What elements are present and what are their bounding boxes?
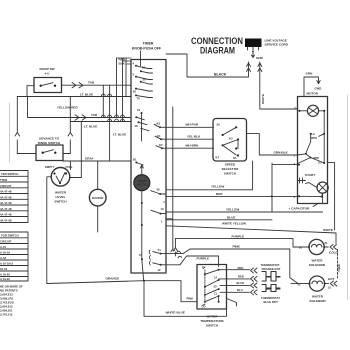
wire hot left: [291, 283, 309, 285]
svg-text:WHITE-BLUE: WHITE-BLUE: [166, 311, 185, 315]
water level switch P1: [51, 168, 70, 187]
wire door sw right / TAB: [62, 84, 132, 86]
svg-text:GRN: GRN: [306, 72, 314, 76]
timer box: [131, 60, 166, 274]
svg-text:4A 47-48: 4A 47-48: [0, 218, 12, 222]
label RED BLK: [119, 58, 126, 66]
wire white-blue: [144, 281, 227, 317]
svg-text:SOLENOID: SOLENOID: [309, 299, 326, 303]
label WATER LEVEL SWITCH: [54, 191, 67, 204]
wire lt blue long: [17, 96, 131, 98]
labels EMPTY FULL: [45, 165, 73, 169]
svg-text:5A: 5A: [217, 123, 221, 127]
wire gray to timer: [71, 160, 132, 162]
wire mid vertical c: [116, 58, 118, 118]
table selector switch chart 2: [0, 232, 28, 281]
svg-text:WHITE YELLOW: WHITE YELLOW: [222, 221, 246, 225]
timer terminal labels upper: [133, 62, 147, 101]
svg-text:A 19-20: A 19-20: [0, 277, 10, 281]
capacitor pointer: [313, 203, 319, 207]
water temperature switch box: [197, 265, 227, 310]
svg-text:LO: LO: [202, 305, 207, 309]
svg-text:2: 2: [133, 73, 135, 77]
table water switch chart 1: [0, 171, 28, 223]
svg-text:YELLOW: YELLOW: [226, 208, 239, 212]
svg-text:EMPTY: EMPTY: [45, 165, 55, 169]
wire door sw left: [27, 86, 34, 97]
parallel wire right of timer: [172, 107, 174, 250]
svg-text:4A 47-48: 4A 47-48: [0, 201, 12, 205]
motor inner right wire: [323, 111, 325, 163]
svg-text:J: J: [163, 200, 165, 204]
thermostat blue symbol: [262, 285, 280, 292]
wire yellow 1: [166, 161, 253, 190]
svg-text:BLUE: BLUE: [237, 281, 245, 285]
capacitor symbol: [298, 178, 306, 183]
cold right connector: [324, 245, 336, 250]
svg-text:KNOB-PUSH OFF: KNOB-PUSH OFF: [132, 47, 162, 51]
svg-text:SELECTOR: SELECTOR: [222, 167, 240, 171]
wire left edge down to arrow: [16, 97, 18, 134]
svg-text:GND: GND: [256, 56, 264, 60]
arrow up left: [15, 133, 20, 154]
wire mid vertical d: [122, 58, 124, 122]
page edge line: [347, 95, 349, 300]
svg-text:4A 47-48: 4A 47-48: [0, 207, 12, 211]
svg-text:4A 47-48: 4A 47-48: [0, 190, 12, 194]
svg-text:CIRCUIT: CIRCUIT: [0, 184, 12, 188]
arrow up right: [68, 133, 73, 154]
svg-text:BLU: BLU: [237, 288, 243, 292]
svg-text:LT. BLUE: LT. BLUE: [84, 125, 97, 129]
motor 4 terminal: [298, 193, 322, 197]
timer terminal labels mid: [135, 108, 141, 128]
label DOOR SW: [39, 67, 54, 76]
svg-text:16: 16: [142, 66, 146, 70]
wire start to capacitor run: [322, 193, 324, 203]
svg-text:10: 10: [139, 253, 143, 257]
wire purple 2: [187, 256, 219, 267]
wire motor 3 feed: [272, 163, 300, 212]
svg-text:6A: 6A: [233, 156, 237, 160]
svg-text:21: 21: [328, 286, 332, 290]
timer contacts upper: [135, 65, 153, 98]
label LINE VOLTAGE SERVICE CORD: [265, 39, 289, 47]
svg-text:HOT: HOT: [328, 277, 335, 281]
title CONNECTION DIAGRAM: [191, 36, 243, 57]
svg-text:BUZZER: BUZZER: [92, 196, 103, 200]
thermostat orange symbol: [262, 272, 280, 282]
svg-text:SOLENOID: SOLENOID: [309, 263, 326, 267]
wire mid vertical a: [102, 85, 104, 117]
svg-text:MOTOR: MOTOR: [307, 92, 319, 96]
timer contacts T1/10/12: [141, 250, 162, 266]
svg-text:CIRCUIT: CIRCUIT: [0, 239, 12, 243]
svg-text:0.5: 0.5: [318, 161, 322, 165]
svg-text:3,742,512: 3,742,512: [0, 313, 13, 317]
svg-text:30: 30: [157, 188, 161, 192]
label THERMOSTAT BLUE DOT: [261, 296, 280, 304]
svg-text:+ CAPACITOR: + CAPACITOR: [289, 207, 311, 211]
wire into timer top: [140, 51, 142, 66]
svg-text:WH-BRN: WH-BRN: [186, 143, 200, 147]
motor box: [298, 97, 328, 204]
svg-text:4: 4: [294, 195, 296, 199]
svg-text:SWITCH: SWITCH: [206, 324, 219, 328]
wire cold left: [293, 244, 309, 248]
label ADVANCE TO RINSE SWITCH: [38, 137, 61, 145]
svg-text:TIMER: TIMER: [143, 42, 154, 46]
svg-text:K3: K3: [229, 137, 233, 141]
svg-text:20: 20: [214, 285, 218, 289]
svg-text:TAB: TAB: [88, 81, 95, 85]
svg-text:T1: T1: [158, 248, 162, 252]
svg-text:START: START: [305, 173, 315, 177]
wire yellow-red: [28, 97, 132, 118]
svg-text:TAB: TAB: [91, 113, 98, 117]
svg-text:K7: K7: [216, 156, 220, 160]
svg-text:4A 47-48: 4A 47-48: [0, 213, 12, 217]
wire WLS left down: [47, 177, 51, 284]
svg-text:A 16-20: A 16-20: [0, 272, 10, 276]
label THERMOSTAT ORANGE DOT: [261, 263, 281, 271]
svg-text:# U: # U: [45, 72, 51, 76]
connector chevrons N: [258, 63, 262, 72]
wire WLS right up loop: [70, 122, 82, 178]
label WATER SOLENOID cold: [309, 259, 326, 268]
svg-text:LT. BLUE: LT. BLUE: [80, 92, 93, 96]
wire white N: [260, 62, 298, 109]
motor start winding: [306, 182, 329, 193]
svg-text:1: 1: [161, 220, 163, 224]
svg-text:GND: GND: [315, 87, 323, 91]
wire second cross line: [70, 97, 131, 134]
wire blue 1: [220, 283, 257, 288]
svg-text:WATER: WATER: [55, 191, 67, 195]
svg-text:BLACK: BLACK: [214, 73, 227, 77]
connector chevrons TAB1: [72, 83, 83, 88]
svg-text:DOOR SW: DOOR SW: [39, 67, 54, 71]
wire speed switch to motor 5: [247, 134, 260, 155]
svg-text:LT. BLUE: LT. BLUE: [113, 133, 126, 137]
svg-text:MOTOR: MOTOR: [137, 183, 147, 187]
svg-text:4PM: 4PM: [313, 156, 319, 160]
wire yel-blk to speed switch: [166, 138, 214, 140]
svg-text:26: 26: [133, 90, 137, 94]
label TIMER KNOB-PUSH OFF: [132, 42, 162, 51]
svg-text:RED: RED: [216, 192, 223, 196]
labels T1 10 12: [139, 248, 161, 272]
svg-text:K2: K2: [159, 143, 163, 147]
svg-text:BLUE: BLUE: [227, 215, 235, 219]
label 3 wire - motor right stub: [328, 163, 335, 230]
svg-text:TER SWITCH: TER SWITCH: [1, 172, 18, 176]
svg-text:5: 5: [294, 154, 296, 158]
wire purple 1: [175, 239, 293, 244]
svg-text:GRN-BLK: GRN-BLK: [274, 151, 289, 155]
service cord block: [245, 39, 262, 51]
svg-text:16-19: 16-19: [0, 267, 8, 271]
wire mid vertical b: [109, 85, 111, 161]
label SPEED SELECTOR SWITCH: [222, 163, 240, 176]
motor main winding: [298, 105, 325, 116]
wire timer top feeders: [117, 58, 132, 64]
svg-text:WHITE: WHITE: [261, 94, 265, 104]
svg-text:WATER: WATER: [312, 295, 324, 299]
crossover hops bottom: [171, 250, 182, 258]
GRD pin arrow: [252, 51, 255, 58]
wire purple drop arrow: [173, 239, 177, 256]
cold water solenoid: [308, 239, 325, 254]
labels K3 K1 K2: [157, 122, 164, 148]
svg-text:PURPLE: PURPLE: [232, 234, 245, 238]
svg-text:22: 22: [298, 283, 302, 287]
svg-text:3: 3: [294, 162, 296, 166]
wire wh-brn to speed switch: [166, 147, 214, 149]
wire WLS top gray: [63, 161, 71, 170]
label WATER TEMPERATURE SWITCH: [200, 315, 223, 328]
svg-text:A 16-19+2: A 16-19+2: [0, 261, 13, 265]
svg-text:SPEED: SPEED: [225, 163, 236, 167]
svg-text:BLUE DOT: BLUE DOT: [264, 300, 279, 304]
svg-text:TTER: TTER: [0, 178, 7, 182]
wire yellow 2 capacitor run: [166, 211, 323, 213]
svg-text:WATER: WATER: [312, 259, 324, 263]
svg-text:TEMPERATURE: TEMPERATURE: [200, 319, 223, 323]
svg-text:K1: K1: [157, 134, 161, 138]
wire red 1: [219, 268, 257, 273]
svg-text:WHITE: WHITE: [323, 228, 333, 232]
timer motor M1: [134, 175, 150, 191]
svg-text:YELLOW: YELLOW: [211, 185, 224, 189]
svg-text:PINK: PINK: [187, 297, 194, 301]
advance to rinse switch box: [36, 145, 63, 161]
wire wh-pur to speed switch: [166, 126, 214, 128]
speed selector switch box: [213, 119, 247, 162]
svg-text:11: 11: [214, 292, 217, 296]
svg-text:SERVICE CORD: SERVICE CORD: [265, 43, 289, 47]
svg-text:4: 4: [133, 62, 135, 66]
wire blue 2: [220, 290, 257, 295]
timer B1 contact: [135, 162, 143, 175]
svg-text:RED: RED: [238, 266, 244, 270]
wire green ground: [304, 77, 320, 97]
svg-text:SWITCH: SWITCH: [224, 172, 237, 176]
svg-text:TOR SWITCH: TOR SWITCH: [1, 234, 19, 238]
svg-text:LEVEL: LEVEL: [56, 195, 66, 199]
label WATER SOLENOID hot: [309, 295, 326, 304]
wire black L1: [166, 54, 249, 77]
svg-text:A 16-19: A 16-19: [0, 250, 10, 254]
svg-text:SWITCH: SWITCH: [54, 200, 67, 204]
svg-text:ORANGE: ORANGE: [106, 277, 120, 281]
buzzer wire top: [97, 161, 99, 189]
svg-text:A-10: A-10: [0, 245, 7, 249]
svg-text:Y-BLK: Y-BLK: [337, 264, 341, 272]
svg-text:10: 10: [161, 207, 165, 211]
svg-text:FULL: FULL: [66, 165, 73, 169]
timer contacts K3 K1 K2: [154, 124, 166, 149]
speed switch labels: [216, 123, 237, 161]
svg-text:K3: K3: [157, 122, 161, 126]
svg-text:PURPLE: PURPLE: [197, 257, 210, 261]
wire rinse right: [63, 153, 70, 155]
svg-text:RPM: RPM: [311, 136, 318, 140]
patents text block: [0, 285, 23, 317]
connector chevrons TAB2: [75, 115, 86, 120]
door switch box: [34, 78, 62, 93]
svg-text:WH-PUR: WH-PUR: [186, 123, 199, 127]
wire mid vertical e: [125, 58, 127, 97]
timer contacts 30/10/1: [151, 191, 172, 219]
wire red 2: [219, 276, 257, 281]
svg-text:T5: T5: [137, 97, 141, 101]
timer 12 link: [162, 256, 187, 265]
svg-text:12: 12: [158, 268, 162, 272]
svg-text:ORANGE DOT: ORANGE DOT: [262, 267, 281, 271]
wire white yellow long: [166, 226, 336, 244]
timer contacts mid: [135, 112, 149, 141]
wire right edge dashed: [337, 250, 339, 279]
wire timer 10 to orange: [142, 259, 144, 280]
svg-text:2A: 2A: [143, 78, 147, 82]
svg-text:YEL-BLK: YEL-BLK: [187, 135, 201, 139]
svg-text:20: 20: [299, 246, 303, 250]
svg-text:21: 21: [137, 108, 141, 112]
svg-text:16: 16: [135, 124, 139, 128]
svg-text:PINK: PINK: [233, 245, 241, 249]
hot water solenoid: [308, 276, 325, 291]
buzzer B1: [89, 189, 106, 206]
connector chevrons L1: [247, 63, 251, 72]
svg-text:B1: B1: [133, 158, 137, 162]
wire WTS bottom right: [227, 299, 237, 307]
wire pink: [190, 249, 298, 284]
svg-text:A-18: A-18: [0, 256, 7, 260]
labels 30 J 10 1: [157, 188, 166, 224]
wire red to motor 4: [166, 195, 299, 197]
wire rinse left: [17, 153, 36, 155]
svg-text:P: P: [295, 107, 297, 111]
page fold line left: [9, 103, 11, 162]
svg-text:YELLOW-RED: YELLOW-RED: [57, 106, 78, 110]
crossover bumps: [101, 94, 124, 121]
wire blue: [166, 219, 272, 221]
buzzer wire bottom: [97, 206, 99, 232]
wire timer motor down: [141, 191, 143, 259]
svg-text:14: 14: [214, 276, 218, 280]
svg-text:GRAY: GRAY: [85, 157, 95, 161]
svg-text:21: 21: [325, 241, 329, 245]
wire orange: [47, 280, 197, 302]
svg-text:RINSE SWITCH: RINSE SWITCH: [38, 141, 61, 145]
label 1-9 RPM: [311, 132, 318, 140]
timer T1 link: [162, 249, 190, 254]
wire grn-blk: [259, 154, 297, 156]
svg-text:DIAGRAM: DIAGRAM: [200, 46, 235, 57]
hot right connector: [325, 281, 337, 286]
motor speed contacts: [298, 133, 326, 164]
svg-text:RED: RED: [238, 274, 244, 278]
label 4PM: [313, 156, 322, 165]
svg-text:4A 47-48: 4A 47-48: [0, 195, 12, 199]
